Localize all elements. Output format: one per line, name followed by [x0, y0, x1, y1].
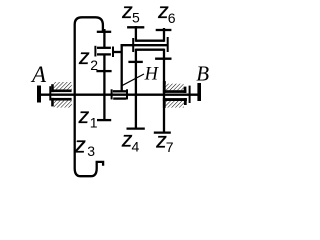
- svg-text:A: A: [30, 62, 47, 87]
- carrier hub left tick: [111, 89, 113, 99]
- svg-text:z: z: [74, 133, 86, 158]
- gear z5 / z4 disk lower: [135, 49, 137, 129]
- node collar tick on shaft A: [49, 86, 51, 100]
- axle bearing tick right: [167, 37, 169, 52]
- gear z2 top cap: [97, 31, 111, 33]
- planet hub top bar: [136, 40, 164, 42]
- mesh cap z6-z7: [155, 58, 171, 60]
- bearing A upper block: [51, 84, 71, 92]
- gear z5 top cap: [127, 26, 144, 28]
- axle bearing tick left: [132, 38, 134, 52]
- svg-text:H: H: [144, 65, 160, 85]
- svg-text:7: 7: [166, 139, 174, 155]
- planet hub bottom bar: [136, 49, 164, 51]
- bearing B lower block: [163, 98, 187, 108]
- gear z2 bottom cap: [97, 47, 111, 49]
- gear z4 bottom cap: [127, 127, 145, 129]
- gear z1 disk: [103, 54, 105, 120]
- carrier hub upper bar: [113, 90, 127, 92]
- gear z1 top cap: [96, 70, 111, 72]
- ring gear z3 bracket: [75, 17, 103, 176]
- shaft A end cap: [37, 86, 41, 103]
- carrier hub lower bar: [113, 97, 126, 99]
- mesh z1-z2 bar: [97, 53, 111, 55]
- svg-text:z: z: [78, 46, 90, 69]
- mesh z1-z2 left tick: [94, 46, 96, 57]
- svg-text:2: 2: [90, 57, 98, 73]
- gear z5 disk upper: [135, 26, 137, 42]
- svg-text:5: 5: [132, 10, 140, 26]
- bearing B right tick: [189, 86, 191, 103]
- bearing B upper block: [163, 81, 187, 93]
- svg-text:3: 3: [87, 143, 95, 159]
- svg-text:4: 4: [132, 138, 140, 154]
- svg-text:z: z: [78, 105, 90, 128]
- wire mesh-to-carrier link: [113, 51, 122, 53]
- bearing A lower block: [51, 98, 71, 107]
- gear z1 bottom cap: [97, 119, 111, 121]
- gear z7 bottom cap: [154, 131, 171, 133]
- svg-text:B: B: [196, 62, 209, 86]
- gear z6 top cap: [156, 29, 172, 31]
- svg-text:6: 6: [168, 10, 176, 26]
- shaft B end cap: [197, 83, 201, 101]
- gear z6 disk upper: [163, 28, 165, 42]
- carrier H arm: [121, 44, 123, 91]
- gear z6 / z7 disk lower: [163, 49, 165, 133]
- carrier H planet axle: [121, 44, 168, 46]
- leader line to H: [122, 74, 144, 86]
- mesh cap z5-z4: [128, 61, 142, 63]
- wire main shaft A-B: [41, 94, 198, 96]
- carrier hub right tick: [126, 89, 128, 99]
- svg-text:1: 1: [90, 114, 98, 130]
- gear z2 disk: [103, 29, 105, 48]
- mesh z1-z2 right tick: [112, 47, 114, 58]
